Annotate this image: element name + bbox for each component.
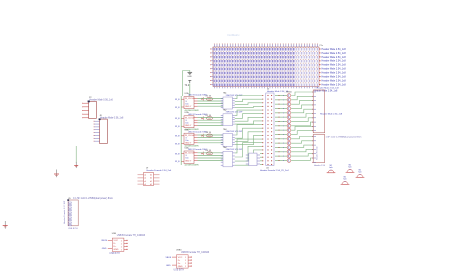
svg-text:R3 1K: R3 1K [206,132,212,134]
svg-text:W_E: W_E [175,143,180,145]
svg-text:R1 1K: R1 1K [206,96,212,98]
svg-text:222: 222 [208,135,211,137]
svg-text:hole: hole [348,167,351,169]
svg-text:USB B Female TH_C40943: USB B Female TH_C40943 [117,235,146,237]
svg-text:D-: D- [114,243,117,245]
svg-text:b1: b1 [150,184,152,186]
svg-text:W_E: W_E [175,126,180,128]
svg-text:USB B/TH: USB B/TH [109,253,120,255]
svg-text:GND: GND [102,248,107,250]
svg-text:W_E: W_E [175,136,180,138]
svg-text:222: 222 [208,153,211,155]
svg-text:a1: a1 [144,175,146,177]
svg-text:GND: GND [187,76,192,78]
svg-text:M2: M2 [359,170,361,172]
svg-text:74HC595 1/16 DIP: 74HC595 1/16 DIP [226,112,243,114]
svg-text:M2: M2 [344,177,346,179]
svg-text:74.2: 74.2 [185,84,190,87]
svg-text:Header Male 2.54_1x8: Header Male 2.54_1x8 [322,83,347,86]
svg-text:W_E: W_E [175,153,180,155]
svg-text:74HC595 1/16 DIP: 74HC595 1/16 DIP [226,149,243,151]
svg-text:W_E: W_E [175,99,180,101]
svg-text:DotMatrix: DotMatrix [228,33,241,37]
svg-text:Header Female 1.27 10P: Header Female 1.27 10P [63,200,66,224]
svg-text:hole: hole [343,179,346,181]
svg-text:Header Male 0.56_1x6: Header Male 0.56_1x6 [90,99,114,102]
svg-text:M2: M2 [349,165,351,167]
svg-text:Header Male 2.54_1x8: Header Male 2.54_1x8 [322,76,347,79]
svg-text:Header Male 2.54_1x8: Header Male 2.54_1x8 [322,79,347,82]
svg-text:Header Male 2.54_1x8: Header Male 2.54_1x8 [320,113,343,116]
svg-text:hole: hole [358,172,361,174]
svg-text:a1: a1 [144,181,146,183]
svg-text:GND Y: GND Y [185,125,192,127]
svg-text:GND Y: GND Y [185,142,192,144]
svg-text:Header Male 0.56_1x8: Header Male 0.56_1x8 [100,117,124,120]
svg-text:Header Male 2.54_1x8: Header Male 2.54_1x8 [322,60,347,63]
svg-text:Header Male 2.54_1x8: Header Male 2.54_1x8 [322,72,347,75]
svg-text:GND Y: GND Y [185,160,192,162]
svg-text:VCC: VCC [114,240,119,242]
svg-text:1: 1 [121,246,122,248]
svg-text:1: 1 [185,260,186,262]
svg-text:74HC595 1/16 DIP: 74HC595 1/16 DIP [226,131,243,133]
svg-text:USB B/TH: USB B/TH [68,228,78,230]
svg-text:W_E: W_E [175,161,180,163]
svg-text:1: 1 [121,249,122,251]
svg-text:D+: D+ [114,246,118,248]
svg-text:222: 222 [208,99,211,101]
svg-text:1: 1 [121,240,122,242]
svg-text:1.5F 1x10 1.27MM(dual power) 8: 1.5F 1x10 1.27MM(dual power) 8mm [326,136,362,139]
svg-text:USB B Female TH_C40943: USB B Female TH_C40943 [181,252,210,254]
svg-text:4-8 DECODER: 4-8 DECODER [185,165,199,167]
svg-text:a1: a1 [144,178,146,180]
svg-text:1: 1 [185,266,186,268]
svg-text:222: 222 [208,118,211,120]
svg-text:GND: GND [166,265,171,267]
svg-text:GND: GND [114,249,119,251]
svg-text:W_CLK A: W_CLK A [185,152,194,155]
svg-text:Header Female 2.54_2X_2x4: Header Female 2.54_2X_2x4 [260,169,289,172]
svg-text:W_E: W_E [175,118,180,120]
svg-text:VBUS: VBUS [166,257,172,259]
svg-text:S8550: S8550 [286,92,293,94]
svg-text:U4: U4 [266,167,270,169]
svg-text:b1: b1 [150,178,152,180]
svg-text:R4 1K: R4 1K [206,150,212,152]
svg-text:b1: b1 [150,175,152,177]
svg-text:VBUS: VBUS [101,240,107,242]
svg-text:1: 1 [121,243,122,245]
svg-text:Header 2.54: Header 2.54 [314,165,326,167]
svg-text:Header Male 2.54_1x8: Header Male 2.54_1x8 [322,52,347,55]
svg-text:W_CLK A: W_CLK A [185,97,194,100]
svg-text:GND: GND [178,266,183,268]
svg-text:M2: M2 [330,165,332,167]
svg-text:Header Male 2.54_1x8: Header Male 2.54_1x8 [322,68,347,71]
svg-text:VCC: VCC [178,257,183,259]
svg-text:1: 1 [185,263,186,265]
svg-text:P1x: P1x [320,45,323,47]
svg-text:R2 1K: R2 1K [206,115,212,117]
svg-text:GND Y: GND Y [185,106,192,108]
svg-text:Header Female: Header Female [317,145,319,160]
svg-text:D+: D+ [178,263,182,265]
svg-text:1: 1 [185,257,186,259]
svg-text:W_E: W_E [175,107,180,109]
svg-text:W_CLK A: W_CLK A [185,116,194,119]
svg-text:hole: hole [329,167,332,169]
svg-text:Header Male 2.54_1x8: Header Male 2.54_1x8 [317,87,340,90]
svg-text:D-: D- [178,260,181,262]
svg-text:a1: a1 [144,184,146,186]
svg-text:Header Male 2.54_1x8: Header Male 2.54_1x8 [322,48,347,51]
svg-text:USB B/TH: USB B/TH [174,270,185,272]
svg-text:Header Female 2.54_2x4: Header Female 2.54_2x4 [147,169,172,172]
svg-text:Header Male 2.54_1x8: Header Male 2.54_1x8 [322,56,347,59]
svg-text:Header Male 2.54_1x8: Header Male 2.54_1x8 [322,64,347,67]
svg-text:W_CLK A: W_CLK A [185,134,194,137]
svg-text:b1: b1 [150,181,152,183]
svg-text:C 1.5F 1x10 1.27MM(dual power): C 1.5F 1x10 1.27MM(dual power) 8mm [73,197,113,200]
